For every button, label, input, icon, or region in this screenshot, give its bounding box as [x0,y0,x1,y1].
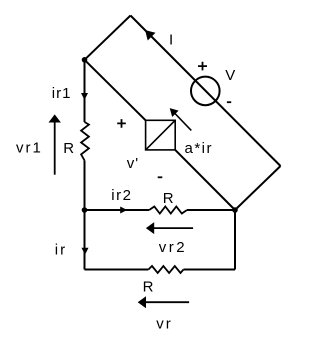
svg-text:a*ir: a*ir [185,140,214,157]
svg-text:vr2: vr2 [159,239,187,256]
node B dot [232,207,238,213]
wire right corner to node B [235,166,281,210]
dependent source a*ir [146,120,176,150]
arrow a*ir [170,108,192,130]
svg-text:ir: ir [55,242,67,259]
current arrow I [145,30,155,40]
arrow vr1 [49,114,61,174]
wire resistor R3 to bottom right corner [184,269,236,271]
minus sign of V [227,101,231,103]
plus sign of v' [117,119,126,128]
junction dot left [82,207,88,213]
wire dependent source to node B [175,150,235,210]
svg-text:R: R [163,190,174,207]
resistor R2 zigzag [149,207,187,214]
resistor R3 zigzag [148,266,183,273]
svg-text:R: R [63,140,74,157]
arrow vr2 [146,222,193,234]
svg-text:v': v' [127,155,139,172]
svg-text:ir2: ir2 [111,187,132,204]
svg-text:I: I [169,31,173,48]
svg-text:ir1: ir1 [52,85,72,102]
plus sign of V [198,62,207,71]
node A dot [82,57,88,63]
svg-text:vr: vr [156,316,173,333]
arrow vr [138,296,189,308]
voltage source V [191,77,220,106]
current arrow ir1 [81,93,88,100]
wire node A to top peak [85,16,131,60]
minus sign of v' [158,176,163,178]
resistor R1 zigzag [81,122,89,160]
svg-text:R: R [143,279,154,296]
wire junction to resistor R2 [85,209,150,211]
current arrow ir [82,248,89,255]
current arrow ir2 [120,207,127,214]
wire resistor R2 to node B [187,209,235,211]
wire resistor R1 to junction [84,160,86,210]
svg-text:vr1: vr1 [16,140,43,157]
wire junction down to bottom left corner [84,210,86,270]
wire node A down to resistor R1 [84,60,86,122]
wire bottom left corner to resistor R3 [85,269,149,271]
wire top peak to right corner through source V [131,16,281,167]
wire node B down to bottom right corner [234,210,236,270]
wire node A to dependent source [85,60,146,121]
svg-text:V: V [225,67,235,84]
